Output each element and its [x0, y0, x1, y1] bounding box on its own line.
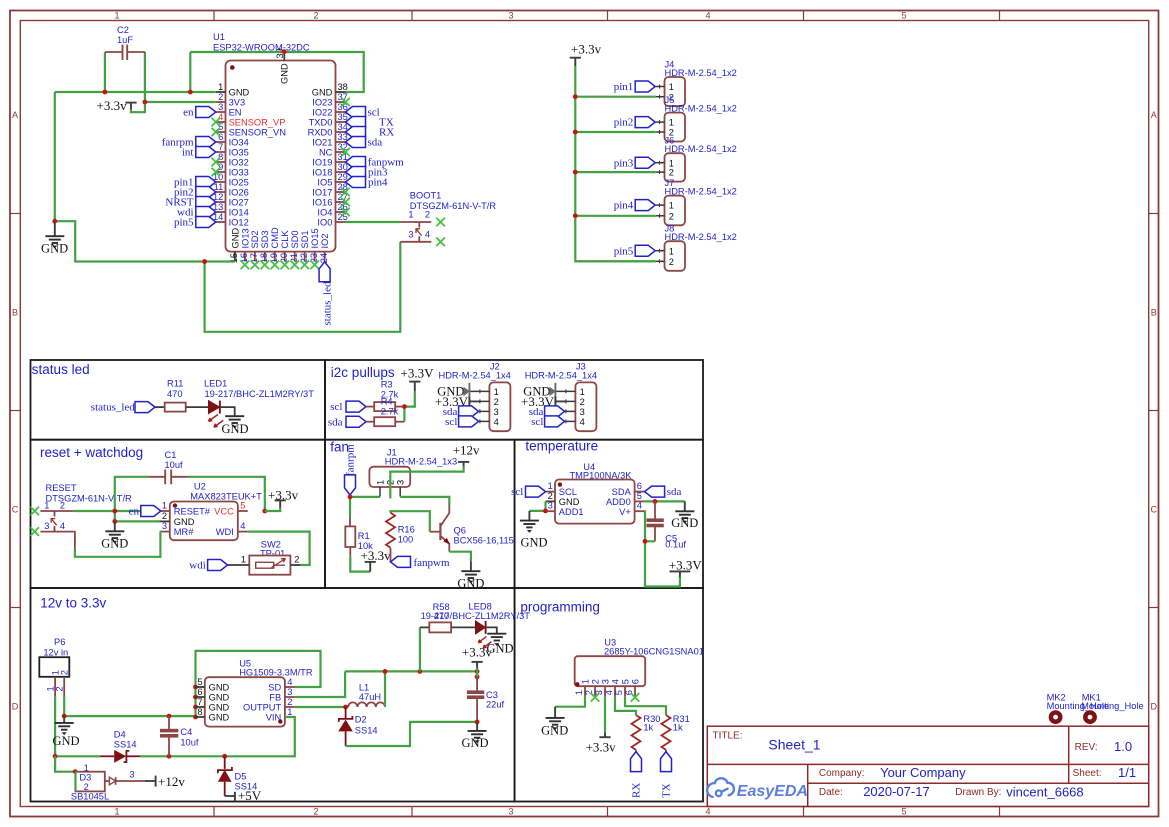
svg-text:GND: GND [174, 517, 195, 527]
svg-text:2: 2 [313, 10, 318, 20]
U1 right pins 38-25 [308, 82, 348, 227]
svg-text:2: 2 [287, 697, 292, 707]
svg-text:HDR-M-2.54_1x2: HDR-M-2.54_1x2 [665, 144, 737, 154]
wire status_led to R11 [155, 406, 165, 408]
connector J2 HDR-M-2.54_1x4 [439, 361, 511, 431]
svg-text:4: 4 [60, 521, 65, 531]
wire +3.3v rail 12v section [345, 670, 477, 672]
svg-text:WDI: WDI [216, 527, 234, 537]
svg-text:3: 3 [508, 10, 513, 20]
svg-text:EasyEDA: EasyEDA [737, 783, 808, 800]
net flag sda at J3 pin3 [529, 406, 565, 418]
LED LED1 19-217/BHC-ZL1M2RY/3T [204, 379, 314, 428]
wire rail bottom 12v [55, 717, 295, 756]
svg-text:TXD0: TXD0 [309, 118, 333, 128]
net flag TX [661, 752, 673, 798]
svg-text:HDR-M-2.54_1x2: HDR-M-2.54_1x2 [665, 104, 737, 114]
svg-text:D2: D2 [355, 715, 367, 725]
wire C1 left branch [115, 477, 149, 511]
wire +3.3v to J8 pin2 [575, 260, 656, 262]
IC U4 TMP100NA/3K [555, 462, 635, 524]
capacitor C5 0.1uf [647, 501, 686, 549]
svg-text:sda: sda [328, 416, 343, 428]
svg-text:2: 2 [425, 210, 430, 220]
wire U3 pin4 to R30 [615, 697, 636, 715]
wire +3.3v to J7 pin2 [575, 215, 656, 217]
svg-text:19-217/BHC-ZL1M2RY/3T: 19-217/BHC-ZL1M2RY/3T [205, 389, 315, 399]
svg-text:1: 1 [574, 690, 584, 695]
junction dots U5 GND pins [193, 685, 198, 720]
svg-text:B: B [12, 308, 18, 318]
svg-text:C: C [1150, 505, 1157, 515]
wire LED8 to GND [486, 627, 497, 633]
junction dot P6 pin2 [62, 714, 67, 719]
resistor R58 470 [420, 602, 476, 632]
svg-text:GND: GND [209, 703, 230, 713]
svg-text:R1: R1 [358, 531, 370, 541]
svg-text:7: 7 [218, 142, 223, 152]
net flag int pin7 [182, 147, 216, 159]
svg-text:12v to 3.3v: 12v to 3.3v [40, 596, 106, 611]
svg-text:IO34: IO34 [229, 138, 249, 148]
connector J5 HDR-M-2.54_1x2 [656, 95, 737, 141]
ground GND temperature left [520, 511, 548, 550]
svg-text:VCC: VCC [214, 507, 234, 517]
net flag pin4 right [346, 177, 389, 189]
U1 no-connect X pins 4 5 8 9 [212, 118, 221, 177]
svg-text:SD3: SD3 [260, 230, 270, 248]
svg-text:ADD1: ADD1 [559, 507, 584, 517]
diode D2 SS14 [338, 707, 377, 746]
svg-text:6: 6 [637, 481, 642, 491]
wire +12v to J1 pin2 [390, 466, 463, 499]
svg-text:GND: GND [280, 63, 290, 84]
svg-text:Sheet:: Sheet: [1073, 768, 1102, 779]
junction dot ADD1 [543, 509, 548, 514]
wire +3.3v to VCC [265, 508, 280, 512]
svg-text:IO12: IO12 [229, 218, 249, 228]
svg-text:BOOT1: BOOT1 [410, 191, 442, 201]
svg-text:REV:: REV: [1075, 742, 1098, 753]
svg-text:12v in: 12v in [43, 647, 68, 657]
junction dot rail J5 [573, 130, 578, 135]
svg-text:3: 3 [548, 501, 553, 511]
net flag TX pin35 [346, 117, 394, 129]
wire +3.3v to J5 pin2 [575, 131, 656, 133]
U1 top pin 39 GND [275, 48, 290, 84]
svg-text:pin3: pin3 [614, 157, 634, 169]
net flag pin3 right [346, 167, 389, 179]
svg-text:1: 1 [44, 500, 49, 510]
svg-text:SDA: SDA [612, 487, 632, 497]
svg-text:+12v: +12v [158, 774, 185, 789]
svg-text:GND: GND [461, 736, 488, 750]
connector J8 HDR-M-2.54_1x2 [656, 224, 737, 271]
svg-text:R11: R11 [167, 379, 183, 389]
svg-text:V+: V+ [619, 507, 631, 517]
svg-text:GND: GND [520, 536, 547, 550]
svg-text:IO2: IO2 [320, 234, 330, 249]
svg-text:pin2: pin2 [614, 117, 634, 129]
net flag scl at J3 pin4 [531, 416, 564, 428]
svg-text:pin5: pin5 [614, 245, 634, 257]
wire GND top vertical [189, 52, 191, 92]
svg-text:1: 1 [548, 481, 553, 491]
svg-text:VIN: VIN [266, 713, 282, 723]
switch SW2 TP-01 [228, 540, 301, 575]
net flag sda at J2 pin3 [443, 406, 479, 418]
svg-text:C3: C3 [486, 690, 498, 700]
wire RESET pin4 loop to MR# [74, 532, 161, 557]
svg-text:470: 470 [167, 389, 183, 399]
svg-text:sda: sda [667, 486, 682, 498]
power GND flag at J2 pin1 [437, 383, 469, 406]
svg-text:GND: GND [209, 693, 230, 703]
svg-text:GND: GND [559, 497, 580, 507]
svg-text:LED8: LED8 [469, 602, 492, 612]
wire C2 left vertical [104, 52, 106, 92]
svg-text:BCX56-16,115: BCX56-16,115 [454, 536, 514, 546]
svg-text:i2c pullups: i2c pullups [331, 365, 395, 380]
svg-text:SD0: SD0 [290, 230, 300, 248]
wire fanrpm node [350, 495, 380, 517]
power GND flag at J3 pin1 [523, 383, 555, 406]
svg-text:C2: C2 [117, 25, 129, 35]
svg-text:Q6: Q6 [454, 526, 466, 536]
svg-text:FB: FB [269, 693, 281, 703]
svg-text:status_led: status_led [321, 281, 333, 325]
U4 pins [546, 481, 645, 517]
svg-text:2685Y-106CNG1SNA01: 2685Y-106CNG1SNA01 [604, 646, 704, 656]
svg-text:C4: C4 [180, 727, 192, 737]
svg-text:IO22: IO22 [312, 108, 332, 118]
svg-text:D4: D4 [114, 730, 126, 740]
svg-text:D5: D5 [235, 772, 247, 782]
wire GND branch U2 pin2 [115, 511, 160, 521]
svg-text:6: 6 [218, 132, 223, 142]
power +12v at D3 [145, 774, 185, 789]
net flag status_led [91, 402, 155, 414]
junction dot D3 pin1 [73, 769, 78, 774]
svg-text:Date:: Date: [819, 787, 843, 798]
svg-text:HDR-M-2.54_1x3: HDR-M-2.54_1x3 [385, 457, 457, 467]
net flag pin1 [174, 177, 216, 189]
wire WDI to SW2 [248, 532, 310, 565]
svg-text:P6: P6 [54, 637, 65, 647]
wire GND left vertical [54, 92, 56, 221]
ground GND reset [101, 521, 128, 550]
svg-text:1: 1 [114, 10, 119, 20]
wire C1 right to VCC [188, 477, 264, 511]
junction dots rail [343, 669, 479, 709]
wire U3 pin1 to GND [555, 697, 585, 707]
svg-text:reset + watchdog: reset + watchdog [40, 445, 143, 460]
svg-text:L1: L1 [359, 683, 369, 693]
resistor R11 470 [165, 379, 186, 412]
power +3.3v near C2 [97, 98, 137, 113]
capacitor C4 10uf [161, 716, 199, 756]
svg-text:R16: R16 [398, 525, 415, 535]
svg-text:RX: RX [631, 783, 643, 798]
mounting hole MK2 [1047, 692, 1110, 724]
svg-text:9: 9 [218, 162, 223, 172]
svg-text:1: 1 [669, 82, 674, 92]
svg-text:+3.3V: +3.3V [401, 365, 435, 380]
svg-text:3: 3 [287, 687, 292, 697]
svg-text:2: 2 [669, 257, 674, 267]
resistor R31 1k [662, 714, 690, 752]
svg-text:pin4: pin4 [614, 200, 634, 212]
svg-text:GND: GND [221, 422, 248, 436]
net flag pin2 [174, 187, 216, 199]
net flag fanrpm vertical [345, 444, 357, 495]
svg-text:TITLE:: TITLE: [713, 731, 743, 742]
no-connect X RESET pin3 [30, 527, 39, 536]
svg-text:int: int [182, 147, 194, 159]
svg-text:5: 5 [218, 122, 223, 132]
net flag scl pin36 [346, 107, 380, 119]
svg-text:1: 1 [408, 210, 413, 220]
svg-text:GND: GND [541, 723, 568, 737]
U5 marker dot [278, 719, 282, 723]
svg-text:1: 1 [84, 763, 89, 773]
svg-text:GND: GND [312, 88, 333, 98]
svg-text:IO0: IO0 [317, 218, 332, 228]
connector J7 HDR-M-2.54_1x2 [656, 178, 737, 225]
U5 pins [195, 677, 295, 723]
svg-text:IO35: IO35 [229, 148, 249, 158]
svg-text:pin1: pin1 [614, 81, 634, 93]
svg-text:GND: GND [230, 228, 240, 249]
power +5V at D5 [225, 788, 262, 803]
svg-text:6: 6 [197, 687, 202, 697]
svg-text:IO26: IO26 [229, 188, 249, 198]
svg-text:en: en [183, 107, 194, 119]
ground GND C3 [461, 722, 488, 750]
svg-text:4: 4 [580, 417, 585, 427]
svg-text:LED1: LED1 [204, 379, 227, 389]
svg-text:U1: U1 [213, 32, 225, 42]
svg-text:fanrpm: fanrpm [345, 444, 357, 476]
svg-text:4: 4 [637, 501, 642, 511]
svg-text:GND: GND [41, 241, 68, 255]
svg-text:4: 4 [705, 807, 710, 817]
wire +3.3v to J4 pin2 [575, 96, 656, 98]
power +3.3v reset [268, 487, 299, 507]
svg-text:B: B [1151, 308, 1157, 318]
svg-text:MAX823TEUK+T: MAX823TEUK+T [190, 492, 262, 502]
svg-text:4: 4 [610, 679, 620, 684]
svg-text:47uH: 47uH [359, 692, 381, 702]
wire GND pin1 horizontal [55, 91, 216, 93]
EasyEDA logo [707, 778, 808, 800]
capacitor C2 1uF [105, 25, 145, 60]
svg-text:fanpwm: fanpwm [414, 557, 450, 569]
net flag sda temperature [645, 486, 682, 498]
svg-text:+3.3v: +3.3v [361, 548, 392, 563]
junction dot ADD0 C5 [653, 499, 658, 504]
svg-text:4: 4 [240, 521, 245, 531]
wire J1 pin3 to Q6 collector [400, 497, 449, 506]
svg-text:2: 2 [60, 500, 65, 510]
svg-text:7: 7 [197, 697, 202, 707]
wire R58 branch down [419, 627, 421, 671]
svg-text:6: 6 [630, 679, 640, 684]
svg-text:2: 2 [313, 807, 318, 817]
power +3.3V flag at J2 pin2 [435, 394, 479, 409]
svg-text:status led: status led [32, 362, 90, 377]
svg-text:1: 1 [241, 555, 246, 565]
net flag status_led pin24 [319, 262, 333, 326]
svg-text:8: 8 [197, 707, 202, 717]
svg-text:vincent_6668: vincent_6668 [1006, 785, 1083, 800]
U2 pin1 marker dot [173, 503, 177, 507]
junction dot fanrpm [348, 495, 353, 500]
svg-text:SD2: SD2 [250, 230, 260, 248]
svg-text:ADD0: ADD0 [606, 497, 631, 507]
svg-text:SENSOR_VP: SENSOR_VP [229, 118, 286, 128]
svg-text:EN: EN [229, 108, 242, 118]
svg-text:IO14: IO14 [229, 208, 249, 218]
section box status led [31, 360, 326, 440]
svg-text:1k: 1k [643, 723, 653, 733]
svg-text:4: 4 [287, 677, 292, 687]
svg-text:1: 1 [494, 387, 499, 397]
svg-text:scl: scl [445, 416, 457, 428]
svg-text:22uf: 22uf [486, 700, 505, 710]
svg-text:IO16: IO16 [312, 198, 332, 208]
svg-text:3: 3 [508, 807, 513, 817]
svg-text:SB1045L: SB1045L [71, 792, 109, 802]
svg-text:HG1509-3.3M/TR: HG1509-3.3M/TR [239, 667, 313, 677]
resistor R3 2.7k [366, 380, 404, 412]
net flag en pin3 [183, 107, 216, 119]
svg-text:3: 3 [396, 480, 406, 485]
svg-text:HDR-M-2.54_1x2: HDR-M-2.54_1x2 [665, 232, 737, 242]
svg-text:5: 5 [197, 677, 202, 687]
svg-text:1: 1 [669, 246, 674, 256]
net flag fanpwm fan [391, 556, 450, 569]
net flag fanpwm pin31 [346, 157, 405, 169]
svg-text:2: 2 [59, 670, 69, 675]
svg-text:IO25: IO25 [229, 178, 249, 188]
svg-text:MR#: MR# [174, 527, 194, 537]
svg-text:5: 5 [901, 10, 906, 20]
svg-text:10uf: 10uf [180, 738, 199, 748]
wire LED1 to GND [220, 407, 235, 416]
J3 pin lines [555, 389, 575, 423]
section box programming [515, 588, 703, 802]
U1 no-connect X pins 16-23 [241, 261, 319, 270]
svg-text:SD: SD [268, 683, 281, 693]
svg-text:IO32: IO32 [229, 158, 249, 168]
IC U2 MAX823TEUK+T [170, 482, 262, 541]
svg-text:5: 5 [637, 491, 642, 501]
svg-text:HDR-M-2.54_1x2: HDR-M-2.54_1x2 [665, 187, 737, 197]
net flag pin5 to J8 [614, 245, 655, 257]
power +3.3V i2c [401, 365, 435, 391]
svg-text:RXD0: RXD0 [308, 128, 333, 138]
section box i2c pullups [325, 360, 703, 440]
svg-text:1: 1 [375, 480, 385, 485]
svg-text:3: 3 [600, 679, 610, 684]
svg-text:2020-07-17: 2020-07-17 [863, 784, 930, 799]
net flag sda pin33 [346, 137, 383, 149]
svg-text:Mounting_Hole: Mounting_Hole [1081, 701, 1144, 711]
svg-text:HDR-M-2.54_1x4: HDR-M-2.54_1x4 [525, 371, 597, 381]
svg-text:+3.3V: +3.3V [669, 557, 703, 572]
svg-text:1k: 1k [673, 723, 683, 733]
svg-text:TMP100NA/3K: TMP100NA/3K [570, 471, 633, 481]
net flag NRST [165, 197, 215, 209]
wire Q6 emitter to GND [449, 552, 471, 562]
svg-text:+5V: +5V [238, 788, 262, 803]
svg-text:sda: sda [368, 137, 383, 149]
svg-text:CLK: CLK [280, 230, 290, 249]
wire C2 right to pin2 [131, 52, 216, 112]
wire P6 pin1 down [54, 696, 56, 756]
svg-text:5: 5 [620, 679, 630, 684]
svg-text:4: 4 [705, 10, 710, 20]
svg-text:2.7k: 2.7k [381, 407, 399, 417]
svg-text:2: 2 [590, 679, 600, 684]
svg-text:HDR-M-2.54_1x2: HDR-M-2.54_1x2 [665, 68, 737, 78]
svg-text:2: 2 [162, 511, 167, 521]
wire R16 top to Q6 base [391, 511, 430, 532]
svg-text:1.0: 1.0 [1114, 739, 1132, 754]
svg-text:IO5: IO5 [317, 178, 332, 188]
svg-text:programming: programming [520, 600, 600, 615]
net flag wdi pin13 [177, 207, 216, 219]
svg-text:2: 2 [494, 397, 499, 407]
net flag pin2 to J5 [614, 117, 655, 129]
diode D4 SS14 [100, 730, 140, 763]
no-connect X RESET pin1 [30, 507, 39, 516]
J2 pin lines [469, 389, 489, 423]
ground GND LED8 [486, 634, 513, 656]
svg-text:RESET#: RESET# [174, 507, 211, 517]
svg-text:4: 4 [494, 417, 499, 427]
svg-text:+3.3v: +3.3v [97, 98, 128, 113]
net flag wdi at SW2 [189, 560, 227, 572]
svg-text:D: D [12, 702, 19, 712]
wire RESET pin2 to U2 [74, 510, 160, 512]
net flag en at U2 [129, 506, 161, 518]
capacitor C1 10uf [149, 450, 189, 484]
svg-text:SD1: SD1 [300, 230, 310, 248]
svg-text:IO23: IO23 [312, 98, 332, 108]
svg-text:2: 2 [84, 782, 89, 792]
net flag RX pin34 [346, 127, 395, 139]
diode D5 SS14 [218, 756, 257, 796]
net flag scl at J2 pin4 [445, 416, 478, 428]
svg-text:4: 4 [604, 690, 614, 695]
svg-text:GND: GND [209, 683, 230, 693]
svg-text:2: 2 [580, 397, 585, 407]
svg-text:3: 3 [580, 407, 585, 417]
svg-text:1: 1 [669, 201, 674, 211]
svg-text:GND: GND [671, 516, 698, 530]
section box 12v to 3.3v [31, 588, 515, 802]
svg-text:C: C [12, 505, 19, 515]
svg-text:scl: scl [511, 486, 523, 498]
ground GND 12v section [52, 716, 79, 748]
U2 pins [160, 501, 248, 538]
diode D3 SB1045L [71, 763, 145, 802]
svg-text:2: 2 [669, 211, 674, 221]
svg-text:1: 1 [114, 807, 119, 817]
svg-text:3: 3 [129, 770, 134, 780]
